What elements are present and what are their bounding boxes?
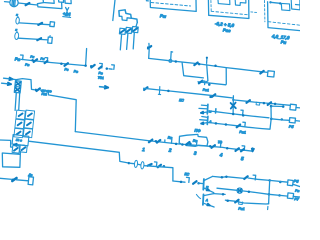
- svg-text:Рв: Рв: [14, 56, 20, 62]
- box P3a: [281, 3, 290, 10]
- transistor VT3: [202, 179, 205, 190]
- contact squares lower: [12, 146, 20, 154]
- svg-text:Рв: Рв: [25, 63, 30, 67]
- wire: [271, 105, 283, 107]
- link wire: [136, 23, 137, 27]
- bus vertical right: [269, 180, 270, 203]
- node: [181, 143, 184, 146]
- wire: [21, 59, 49, 62]
- contact: [236, 148, 239, 151]
- wire: [214, 193, 225, 196]
- node: [60, 63, 63, 66]
- wire: [113, 0, 115, 21]
- switch: [253, 175, 256, 180]
- contact: [65, 63, 68, 66]
- node: [84, 64, 87, 67]
- box K1: [50, 22, 55, 27]
- dashed stub: [251, 11, 257, 14]
- node: [209, 96, 211, 98]
- box U4: [65, 0, 71, 4]
- box 30v: [12, 135, 29, 146]
- node: [214, 64, 217, 67]
- node: [221, 176, 224, 179]
- transistor VT2: [206, 116, 209, 124]
- wire: [199, 182, 204, 184]
- contact: [199, 81, 202, 84]
- node: [106, 67, 109, 70]
- block P3 box: [268, 2, 300, 31]
- relay coil K6: [287, 180, 293, 186]
- wire: [29, 141, 128, 163]
- switch: [45, 58, 48, 63]
- wire down: [148, 49, 151, 58]
- box P2a: [218, 0, 230, 5]
- node: [197, 182, 200, 185]
- box U3: [59, 0, 64, 2]
- svg-text:Рн: Рн: [280, 39, 286, 45]
- connector X1 outline: [119, 10, 137, 23]
- arrow: [148, 164, 152, 166]
- switch: [100, 63, 103, 68]
- box P2b: [235, 0, 246, 5]
- transistor VT1: [206, 104, 209, 114]
- transistor VT4: [202, 194, 205, 204]
- node: [175, 60, 178, 63]
- wire: [271, 2, 281, 3]
- node: [278, 194, 281, 197]
- wire: [173, 181, 185, 182]
- svg-text:30 в: 30 в: [16, 138, 23, 143]
- node: [248, 190, 251, 193]
- arrow: [38, 23, 42, 25]
- switch 2: [169, 139, 172, 144]
- antenna +24 symbol: [66, 7, 69, 10]
- node: [274, 103, 277, 106]
- box D1: [28, 177, 33, 185]
- contact: [144, 87, 147, 90]
- contact: [157, 140, 160, 143]
- contact: [37, 88, 40, 91]
- svg-text:Рв: Рв: [73, 69, 78, 73]
- relay coil K3: [267, 71, 274, 77]
- wire down: [19, 152, 22, 167]
- switch: [187, 177, 190, 182]
- wire: [0, 178, 12, 179]
- node: [155, 140, 158, 143]
- tick stub: [158, 87, 160, 95]
- switch: [203, 81, 205, 85]
- relay coil K7: [287, 193, 293, 199]
- node: [242, 114, 245, 117]
- lamp HL1: [16, 17, 20, 24]
- contact: [260, 71, 263, 74]
- node: [232, 113, 235, 116]
- stub2: [206, 58, 208, 64]
- contact X: [12, 178, 16, 181]
- wire: [232, 96, 234, 114]
- arrow left: [14, 144, 24, 147]
- node: [232, 99, 234, 101]
- svg-text:Рв1: Рв1: [239, 130, 246, 135]
- stub with circle: [170, 52, 173, 60]
- wire T1 row: [213, 176, 245, 178]
- wire: [208, 110, 216, 113]
- svg-text:КС: КС: [179, 98, 185, 103]
- wire: [5, 1, 10, 3]
- flow arrow: [100, 86, 108, 89]
- wire: [248, 178, 270, 180]
- contact: [91, 65, 94, 68]
- lamp HL2: [14, 32, 19, 40]
- svg-text:Рн: Рн: [30, 55, 35, 59]
- wire: [18, 3, 37, 5]
- contact: [244, 176, 247, 179]
- box K2: [48, 37, 53, 43]
- contact: [193, 181, 196, 184]
- contact: [149, 140, 152, 143]
- block P2 box: [208, 0, 249, 19]
- switch u: [256, 102, 260, 105]
- wire: [144, 166, 173, 181]
- switch 5: [242, 146, 245, 151]
- node: [226, 199, 229, 202]
- wire: [270, 180, 288, 182]
- coil pins: [15, 93, 16, 111]
- arrow: [26, 3, 30, 5]
- terminal block X2: [16, 110, 25, 119]
- node: [31, 59, 34, 62]
- wire: [19, 23, 49, 25]
- wire R2b: [233, 100, 290, 105]
- wire T3 row: [225, 200, 268, 204]
- end tick: [252, 148, 254, 151]
- wire T2 row: [217, 188, 269, 194]
- node: [175, 143, 178, 146]
- wire: [293, 195, 300, 198]
- relay coil K4: [290, 104, 296, 110]
- relay coil K5: [289, 118, 295, 123]
- node: [189, 142, 192, 145]
- node: [279, 181, 282, 184]
- node: [198, 63, 201, 66]
- node: [208, 83, 211, 86]
- switch end: [112, 65, 115, 70]
- node: [225, 176, 228, 179]
- node: [128, 162, 131, 165]
- node: [215, 122, 218, 125]
- wire: [16, 79, 34, 90]
- tick: [164, 140, 166, 142]
- bus wire: [149, 58, 268, 72]
- node: [226, 147, 229, 150]
- switch: [155, 162, 157, 167]
- node: [180, 181, 183, 184]
- wire R3: [216, 112, 269, 118]
- box U2: [43, 0, 54, 3]
- wire R4: [208, 119, 271, 130]
- node: [270, 105, 273, 108]
- contact: [212, 94, 215, 97]
- wire: [293, 184, 300, 186]
- contact: [34, 59, 37, 62]
- arrow in 2: [2, 82, 11, 85]
- lamp HL3: [237, 188, 242, 193]
- contact: [268, 102, 271, 105]
- wire: [206, 65, 208, 82]
- contact: [212, 145, 215, 148]
- wire jog left: [0, 140, 13, 147]
- svg-text:КС: КС: [184, 172, 190, 177]
- arrow in 1: [4, 77, 12, 80]
- block PF outline: [179, 134, 208, 146]
- switch 3: [194, 141, 197, 146]
- wire: [198, 68, 226, 85]
- node: [90, 65, 93, 68]
- tick: [267, 206, 269, 209]
- node: [209, 145, 212, 148]
- svg-text:Тд1: Тд1: [97, 76, 104, 81]
- svg-text:Рв: Рв: [295, 189, 300, 193]
- node: [268, 193, 271, 196]
- pin wires: [120, 34, 121, 50]
- svg-text:РН1: РН1: [41, 92, 47, 97]
- wire: [49, 62, 85, 65]
- lamp cross: [231, 103, 236, 108]
- switch u2: [239, 201, 243, 204]
- contact: [247, 100, 250, 103]
- wire: [270, 106, 272, 119]
- contact: [194, 63, 197, 66]
- switch: [241, 110, 243, 115]
- arrow: [37, 38, 41, 40]
- box P3b: [291, 0, 300, 10]
- stub wire: [86, 49, 87, 66]
- node: [263, 102, 266, 105]
- node: [225, 123, 228, 126]
- contact: [237, 125, 240, 128]
- wire: [296, 107, 300, 109]
- wire: [40, 90, 76, 132]
- svg-text:Дв: Дв: [27, 173, 33, 178]
- svg-text:Рас: Рас: [223, 27, 232, 33]
- motor M1: [10, 0, 18, 7]
- node: [167, 90, 170, 93]
- open box: [2, 153, 20, 167]
- bus wire: [75, 132, 252, 152]
- node: [268, 179, 271, 182]
- contact in box: [186, 142, 189, 145]
- capacitor C2: [141, 161, 145, 169]
- svg-text:Рз: Рз: [64, 67, 69, 71]
- node: [270, 118, 273, 121]
- block P1 box: [150, 0, 196, 11]
- node: [163, 165, 166, 168]
- wire: [271, 119, 282, 120]
- box U1: [37, 2, 62, 8]
- svg-text:Рв1: Рв1: [202, 88, 209, 93]
- wire: [16, 180, 28, 181]
- wire: [12, 79, 17, 81]
- wire: [281, 118, 284, 121]
- contact: [147, 46, 150, 49]
- capacitor C1: [134, 160, 138, 167]
- svg-text:Рн: Рн: [40, 57, 45, 61]
- node: [35, 89, 38, 92]
- contact: [235, 200, 238, 203]
- switch: [243, 122, 245, 127]
- coil T1: [14, 81, 21, 93]
- node: [269, 1, 271, 3]
- contact squares X1: [119, 28, 125, 34]
- staircase wire: [182, 63, 203, 78]
- wire: [269, 194, 288, 196]
- bar: [215, 109, 217, 113]
- switch 4: [218, 143, 221, 148]
- svg-text:Ра1: Ра1: [238, 207, 245, 212]
- wire: [19, 38, 48, 40]
- wire R2: [144, 88, 234, 98]
- wire: [295, 120, 300, 123]
